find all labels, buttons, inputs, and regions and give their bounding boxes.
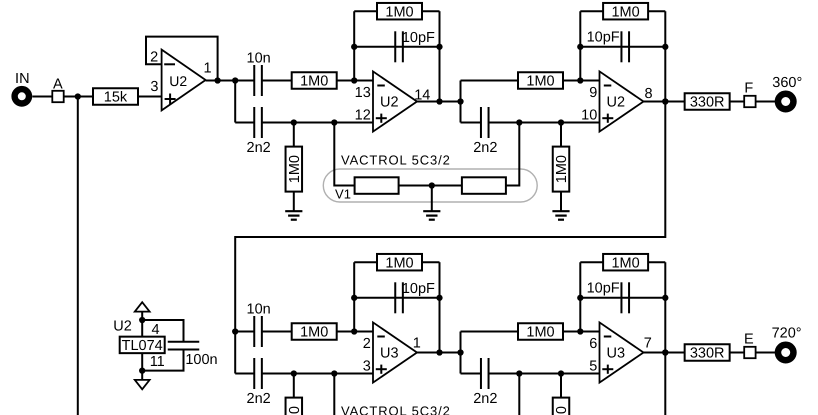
- junction feedback/output stage1: [436, 98, 442, 104]
- svg-text:TL074: TL074: [122, 338, 163, 354]
- wire 2n2 to non-inverting input stage1: [262, 122, 373, 124]
- capacitor 10pF stage2: [621, 31, 629, 62]
- wire output stage3 to stage4: [417, 352, 461, 354]
- wire stage4 upper rail to 1M0: [461, 331, 519, 333]
- input jack IN: [15, 89, 29, 103]
- svg-text:10: 10: [581, 108, 597, 124]
- wire 1M0 to inverting input stage1: [337, 80, 373, 82]
- wire stage1 lower rail to 2n2: [235, 122, 254, 124]
- output jack 720: [778, 345, 794, 361]
- svg-text:VACTROL 5C3/2: VACTROL 5C3/2: [341, 403, 451, 415]
- svg-text:2n2: 2n2: [473, 391, 497, 407]
- resistor 1M0 feedback stage2: [603, 3, 648, 20]
- wire 1M0 to inverting input stage3: [337, 331, 373, 333]
- junction V- decoupling: [139, 367, 145, 373]
- wire feedback 1M0 to right vertical stage2: [648, 10, 665, 12]
- wire lower rail to 1M0 ground resistor stage1: [293, 123, 295, 148]
- resistor 330R bottom: [685, 344, 730, 361]
- vactrol V1 LDR element 1: [355, 177, 399, 194]
- wire TL074 pin 11 to V-: [141, 353, 143, 380]
- wire 2n2 to non-inverting input stage2: [489, 122, 600, 124]
- svg-text:1M0: 1M0: [287, 406, 303, 415]
- junction feedback/output stage3: [436, 349, 442, 355]
- wire 10pF row stage4: [580, 297, 665, 299]
- capacitor 2n2 stage1: [254, 107, 262, 138]
- vactrol V1 outline: [323, 169, 537, 202]
- wire 2n2 to non-inverting input stage3: [262, 373, 373, 375]
- wire node F to 360 jack: [756, 101, 779, 103]
- junction vactrol tap stage1: [331, 119, 337, 125]
- wire 10pF row stage1: [354, 46, 439, 48]
- junction vactrol tap stage3: [331, 370, 337, 376]
- wire output stage4 to 330R: [644, 352, 685, 354]
- wire lower rail to 1M0 ground resistor stage3: [293, 374, 295, 399]
- wire feedback right vertical stage2: [664, 11, 666, 101]
- capacitor 10pF stage4: [621, 282, 629, 313]
- output jack 360: [778, 94, 794, 110]
- svg-text:F: F: [744, 81, 753, 97]
- wire 330R to node F: [730, 101, 745, 103]
- wire vactrol V1 to stage2 lower rail: [506, 123, 519, 186]
- wire stage4 output down (cut off): [664, 353, 666, 415]
- svg-text:3: 3: [150, 79, 158, 95]
- capacitor 2n2 stage2: [481, 107, 489, 138]
- svg-text:720°: 720°: [772, 326, 802, 342]
- svg-text:U2: U2: [607, 95, 626, 111]
- wire stage1 input branch vertical: [234, 81, 236, 123]
- svg-text:8: 8: [645, 86, 653, 102]
- svg-text:2n2: 2n2: [473, 140, 497, 156]
- svg-text:1M0: 1M0: [385, 255, 413, 271]
- ground stage1: [285, 191, 302, 220]
- resistor 1M0 to ground stage2: [553, 147, 570, 192]
- wire lower rail to 1M0 ground resistor stage4: [560, 374, 562, 399]
- resistor 330R top: [685, 93, 730, 110]
- capacitor 2n2 stage3: [254, 358, 262, 389]
- resistor 1M0 to ground stage1: [286, 147, 303, 192]
- junction 1M0-to-ground tap stage1: [291, 119, 297, 125]
- svg-text:IN: IN: [15, 71, 30, 87]
- junction buffer feedback: [214, 77, 220, 83]
- junction vactrol V1 ground tap: [429, 182, 435, 188]
- svg-text:E: E: [744, 332, 754, 348]
- svg-text:2n2: 2n2: [247, 391, 271, 407]
- junction 10pF right stage2: [662, 44, 668, 50]
- svg-text:10pF: 10pF: [587, 281, 620, 297]
- wire to feedback 1M0 stage2: [580, 10, 603, 12]
- wire decoupling cap top: [142, 320, 183, 342]
- junction vactrol tap stage2: [516, 119, 522, 125]
- wire stage2 upper rail to 1M0: [461, 80, 519, 82]
- wire decoupling cap bottom: [142, 350, 183, 371]
- resistor 1M0 feedback stage3: [377, 254, 422, 271]
- wire 2n2 to non-inverting input stage4: [489, 373, 600, 375]
- resistor 1M0 feedback stage1: [377, 3, 422, 20]
- wire 10n to 1M0 stage3: [262, 331, 292, 333]
- junction 1M0-to-ground tap stage4: [558, 370, 564, 376]
- svg-text:11: 11: [150, 354, 165, 370]
- ground vactrol V1: [423, 186, 440, 220]
- wire left rail from node A down: [77, 97, 79, 415]
- wire feedback right vertical stage4: [664, 262, 666, 352]
- svg-text:7: 7: [644, 336, 652, 352]
- junction 10pF right stage1: [436, 44, 442, 50]
- wire stage3 lower rail to 2n2: [235, 373, 254, 375]
- IC TL074 power block: [120, 337, 165, 354]
- wire 10pF row stage3: [354, 297, 439, 299]
- junction 10pF left stage3: [351, 295, 357, 301]
- junction stage2 output node: [662, 98, 668, 104]
- svg-text:10n: 10n: [247, 51, 271, 67]
- wire lower rail to 1M0 ground resistor stage2: [560, 123, 562, 148]
- svg-text:12: 12: [355, 108, 371, 124]
- wire stage1 lower rail into vactrol V1: [334, 123, 354, 186]
- junction stage1 input node: [232, 77, 238, 83]
- svg-text:360°: 360°: [772, 75, 802, 91]
- svg-text:U2: U2: [113, 319, 132, 335]
- svg-text:U3: U3: [380, 346, 399, 362]
- svg-text:1M0: 1M0: [300, 325, 328, 341]
- junction stage4 output node: [662, 349, 668, 355]
- capacitor 100n decoupling: [168, 342, 200, 350]
- svg-text:V1: V1: [335, 187, 351, 202]
- resistor 1M0 series stage3: [292, 323, 337, 340]
- wire feedback left vertical stage2: [579, 11, 581, 80]
- capacitor 10pF stage3: [395, 282, 403, 313]
- svg-text:2n2: 2n2: [247, 140, 271, 156]
- svg-text:1: 1: [413, 336, 421, 352]
- capacitor 10n stage1: [254, 65, 262, 96]
- svg-text:4: 4: [152, 322, 160, 338]
- svg-text:1M0: 1M0: [526, 74, 554, 90]
- junction feedback/inverting input stage3: [351, 328, 357, 334]
- svg-text:1M0: 1M0: [611, 255, 639, 271]
- wire feedback left vertical stage4: [579, 262, 581, 331]
- svg-text:U2: U2: [380, 95, 399, 111]
- wire U2 buffer feedback loop: [146, 37, 218, 81]
- svg-text:1M0: 1M0: [526, 325, 554, 341]
- svg-text:1M0: 1M0: [554, 155, 570, 183]
- wire IN jack to node A: [32, 96, 52, 98]
- junction output node stage1: [457, 98, 463, 104]
- wire feedback left vertical stage1: [353, 11, 355, 80]
- wire stage2 lower rail to 2n2: [461, 122, 481, 124]
- junction 1M0-to-ground tap stage3: [291, 370, 297, 376]
- capacitor 10n stage3: [254, 316, 262, 347]
- wire V+ to TL074 pin 4: [141, 312, 143, 337]
- op-amp U3 stage3: [373, 322, 417, 382]
- svg-text:6: 6: [589, 336, 597, 352]
- wire stage2 output down to stage3 input: [235, 102, 665, 332]
- junction vactrol tap stage4: [516, 370, 522, 376]
- op-amp U2 stage1: [373, 71, 417, 131]
- svg-text:3: 3: [363, 359, 371, 375]
- wire output stage2 to 330R: [644, 101, 685, 103]
- junction stage3 input node: [232, 328, 238, 334]
- svg-text:5: 5: [589, 359, 597, 375]
- svg-text:100n: 100n: [185, 352, 217, 368]
- ground stage2: [552, 191, 569, 220]
- wire 10n to 1M0 stage1: [262, 80, 292, 82]
- svg-text:1M0: 1M0: [287, 155, 303, 183]
- wire feedback left vertical stage3: [353, 262, 355, 331]
- svg-text:15k: 15k: [104, 90, 128, 106]
- svg-text:330R: 330R: [690, 346, 725, 362]
- op-amp U2 buffer: [162, 50, 206, 111]
- svg-text:A: A: [53, 76, 63, 92]
- junction feedback/output stage4: [662, 349, 668, 355]
- wire to feedback 1M0 stage3: [354, 261, 377, 263]
- resistor 1M0 series stage2: [518, 72, 563, 89]
- wire 15k to U2 pin 3: [138, 96, 162, 98]
- wire stage3 input branch vertical: [234, 332, 236, 374]
- svg-text:10pF: 10pF: [587, 30, 620, 46]
- svg-text:9: 9: [589, 85, 597, 101]
- wire stage2 input branch vertical: [460, 81, 462, 123]
- junction 1M0-to-ground tap stage2: [558, 119, 564, 125]
- wire feedback 1M0 to right vertical stage3: [422, 261, 440, 263]
- resistor 1M0 to ground stage3 (cut off): [286, 398, 303, 415]
- svg-text:VACTROL 5C3/2: VACTROL 5C3/2: [341, 152, 451, 167]
- svg-text:U2: U2: [169, 73, 187, 89]
- wire 330R to node E: [730, 352, 745, 354]
- wire vactrol V1 middle: [399, 185, 462, 187]
- node A: [52, 91, 63, 102]
- svg-text:330R: 330R: [690, 95, 725, 111]
- svg-text:13: 13: [355, 85, 371, 101]
- wire lower rail to vactrol V2 stage3: [333, 374, 335, 415]
- junction V+ decoupling: [139, 317, 145, 323]
- wire stage4 input branch vertical: [460, 332, 462, 374]
- svg-text:1M0: 1M0: [385, 4, 413, 20]
- junction feedback/inverting input stage1: [351, 77, 357, 83]
- wire 1M0 to inverting input stage2: [563, 80, 600, 82]
- resistor 1M0 feedback stage4: [603, 254, 648, 271]
- op-amp U3 stage4: [600, 322, 644, 382]
- resistor 1M0 series stage4: [518, 323, 563, 340]
- wire node E to 720 jack: [756, 352, 779, 354]
- resistor 1M0 series stage1: [292, 72, 337, 89]
- svg-text:U3: U3: [607, 346, 626, 362]
- junction feedback/output stage2: [662, 98, 668, 104]
- resistor 1M0 to ground stage4 (cut off): [553, 398, 570, 415]
- wire stage4 lower rail to 2n2: [461, 373, 481, 375]
- wire lower rail to vactrol V2 stage4: [518, 374, 520, 415]
- node F: [744, 96, 755, 107]
- junction node A rail: [75, 93, 81, 99]
- wire feedback 1M0 to right vertical stage1: [422, 10, 440, 12]
- junction output node stage3: [457, 349, 463, 355]
- junction 10pF left stage4: [577, 295, 583, 301]
- wire node A to 15k: [64, 96, 93, 98]
- junction 10pF right stage4: [662, 295, 668, 301]
- junction 10pF right stage3: [436, 295, 442, 301]
- wire 10pF row stage2: [580, 46, 665, 48]
- svg-text:10pF: 10pF: [402, 281, 435, 297]
- wire stage3 upper rail to 10n: [235, 331, 254, 333]
- svg-text:1: 1: [203, 61, 211, 77]
- wire to feedback 1M0 stage4: [580, 261, 603, 263]
- resistor 15k: [93, 88, 138, 105]
- wire output stage1 to stage2: [417, 101, 461, 103]
- svg-text:1M0: 1M0: [554, 406, 570, 415]
- power V- symbol: [135, 380, 150, 389]
- wire feedback right vertical stage1: [439, 11, 441, 101]
- node E: [744, 347, 755, 358]
- svg-text:2: 2: [150, 49, 158, 65]
- capacitor 2n2 stage4: [481, 358, 489, 389]
- op-amp U2 stage2: [600, 71, 644, 131]
- power V+ symbol: [135, 302, 150, 311]
- junction 10pF left stage2: [577, 44, 583, 50]
- capacitor 10pF stage1: [395, 31, 403, 62]
- wire stage1 upper rail to 10n: [235, 80, 254, 82]
- junction feedback/inverting input stage2: [577, 77, 583, 83]
- wire 1M0 to inverting input stage4: [563, 331, 600, 333]
- junction 10pF left stage1: [351, 44, 357, 50]
- svg-text:2: 2: [363, 336, 371, 352]
- wire to feedback 1M0 stage1: [354, 10, 377, 12]
- wire U2 buffer output: [206, 80, 236, 82]
- svg-text:10n: 10n: [247, 302, 271, 318]
- svg-text:1M0: 1M0: [611, 4, 639, 20]
- wire feedback 1M0 to right vertical stage4: [648, 261, 665, 263]
- vactrol V1 LDR element 2: [462, 177, 506, 194]
- svg-text:10pF: 10pF: [402, 30, 435, 46]
- svg-text:1M0: 1M0: [300, 74, 328, 90]
- junction feedback/inverting input stage4: [577, 328, 583, 334]
- wire feedback right vertical stage3: [439, 262, 441, 352]
